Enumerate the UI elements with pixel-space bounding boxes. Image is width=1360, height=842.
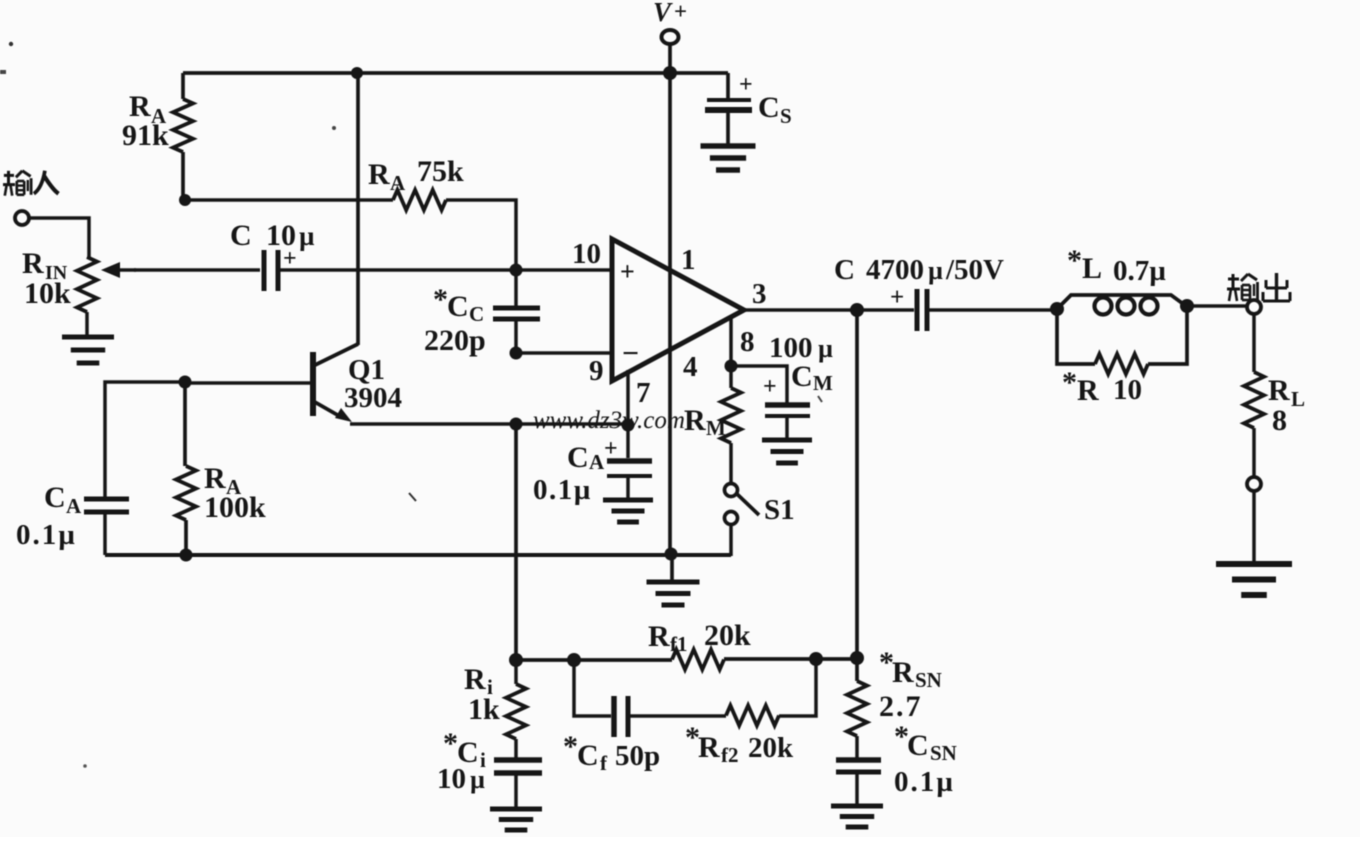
wire pin8 node to CM xyxy=(731,366,787,403)
wire CS to ground xyxy=(726,110,730,144)
svg-text:10: 10 xyxy=(437,763,466,795)
svg-text:9: 9 xyxy=(589,355,604,387)
svg-text:C: C xyxy=(230,219,252,252)
svg-text:+: + xyxy=(604,436,618,462)
ground at CA-right xyxy=(603,500,653,522)
svg-text:0.1µ: 0.1µ xyxy=(894,766,955,798)
node junction emitter / pin7 / CA-right xyxy=(622,419,635,432)
speck tick mid xyxy=(409,493,416,501)
svg-text:A: A xyxy=(66,494,82,518)
svg-text:+: + xyxy=(674,0,687,24)
capacitor C 4700u/50V xyxy=(917,289,927,331)
node junction emitter / CC riser xyxy=(510,418,523,431)
wire V+ vertical through op-amp (pin1/pin4) xyxy=(668,73,672,554)
terminal RL bottom xyxy=(1247,477,1261,491)
ground at RL xyxy=(1216,564,1292,595)
wire RSN to CSN xyxy=(855,736,859,758)
resistor R 10 parallel xyxy=(1057,306,1187,374)
wire Ri to Ci xyxy=(514,739,518,758)
capacitor C 10u xyxy=(264,250,278,291)
svg-text:A: A xyxy=(589,450,605,474)
svg-text:C: C xyxy=(44,481,66,514)
ground at CSN xyxy=(831,806,883,827)
svg-text:µ: µ xyxy=(928,256,943,285)
svg-text:L: L xyxy=(1291,387,1305,411)
svg-text:3904: 3904 xyxy=(344,382,402,414)
node junction Rf2 return xyxy=(809,652,823,666)
svg-text:*: * xyxy=(563,730,578,763)
wire Cf to Rf2 xyxy=(628,714,726,718)
svg-text:R: R xyxy=(698,731,720,764)
svg-text:+: + xyxy=(620,257,635,286)
wire pin 7 drop xyxy=(626,370,630,425)
svg-text:50p: 50p xyxy=(615,740,660,772)
resistor RL 8 xyxy=(1244,372,1264,428)
svg-text:M: M xyxy=(706,416,726,440)
wire CSN to ground xyxy=(855,772,859,805)
wire Cf tap drop xyxy=(574,660,611,716)
svg-text:*: * xyxy=(1062,366,1077,399)
wire C4700 to L/R network xyxy=(927,308,1057,312)
wire CA-right to ground xyxy=(626,476,630,499)
svg-text:−: − xyxy=(622,337,639,370)
wire rail2 left segment xyxy=(185,198,393,202)
svg-text:C: C xyxy=(834,254,855,286)
potentiometer RIN wiper arrow xyxy=(101,262,120,278)
svg-text:0.7µ: 0.7µ xyxy=(1113,255,1166,287)
svg-text:4: 4 xyxy=(683,351,698,383)
wire RA 100k to bottom rail xyxy=(184,520,188,555)
wire CA-left to bottom rail xyxy=(103,512,107,555)
svg-text:L: L xyxy=(1082,252,1102,285)
svg-text:R: R xyxy=(1077,374,1099,407)
resistor RA1 91k xyxy=(173,99,193,152)
wire feedback node to Ri xyxy=(514,660,518,684)
wire signal line pot-arrow to C 10u xyxy=(134,268,260,272)
wire CC riser to feedback node xyxy=(514,424,518,660)
wire base node to Q1 xyxy=(185,381,311,385)
ground at Ci xyxy=(490,809,542,830)
wire lower terminal to ground xyxy=(1252,491,1256,562)
svg-text:+: + xyxy=(283,246,297,272)
node A junction (divider / RA 75k rail) xyxy=(179,194,191,206)
wire rail to main ground xyxy=(670,554,674,581)
resistor Rf2 20k xyxy=(726,706,779,726)
wire input terminal to pot xyxy=(29,218,89,257)
svg-text:20k: 20k xyxy=(748,732,794,764)
node junction feedback / RSN riser xyxy=(850,651,864,665)
label input 输入 xyxy=(3,171,31,196)
capacitor CSN 0.1u xyxy=(836,760,881,772)
node junction L/R left xyxy=(1050,302,1064,316)
svg-text:100k: 100k xyxy=(204,491,266,524)
node junction L/R right xyxy=(1180,299,1194,313)
svg-text:C: C xyxy=(469,302,484,326)
capacitor Cf 50p xyxy=(614,696,628,737)
svg-text:C: C xyxy=(907,729,929,762)
wire C 10u to op-amp +input xyxy=(278,268,612,272)
wire rail2 right segment + drop to +input node xyxy=(446,200,516,270)
svg-text:10: 10 xyxy=(1113,374,1142,406)
resistor RA3 100k xyxy=(176,466,196,520)
resistor RM xyxy=(721,388,741,443)
terminal output xyxy=(1247,300,1261,314)
svg-text:91k: 91k xyxy=(122,119,169,152)
capacitor CA-right 0.1u xyxy=(607,461,652,476)
svg-text:C: C xyxy=(567,441,589,474)
wire Ci to ground xyxy=(514,773,518,808)
svg-text:C: C xyxy=(791,360,813,393)
svg-text:C: C xyxy=(758,91,780,124)
potentiometer RIN 10k body xyxy=(77,257,97,312)
label output 输出 xyxy=(1227,274,1258,301)
svg-text:1k: 1k xyxy=(468,693,500,726)
svg-text:7: 7 xyxy=(636,377,651,409)
node junction pin8 / RM / CM xyxy=(725,360,738,373)
terminal input xyxy=(15,211,29,225)
node junction Cf tap xyxy=(567,653,581,667)
switch S1 xyxy=(725,484,760,525)
svg-text:V: V xyxy=(653,0,673,27)
svg-text:1: 1 xyxy=(681,244,696,276)
svg-text:10k: 10k xyxy=(24,277,71,310)
ground at RIN xyxy=(62,337,114,363)
ground at CM xyxy=(762,440,812,463)
wire pin8 node to RM xyxy=(729,366,733,388)
svg-text:*: * xyxy=(433,283,448,316)
svg-text:+: + xyxy=(890,284,904,311)
wire pin7 node to CA-right xyxy=(626,425,630,458)
svg-text:2.7: 2.7 xyxy=(879,690,923,723)
op-amp U1 triangle xyxy=(612,239,744,381)
resistor RA2 75k xyxy=(393,190,446,210)
svg-text:µ: µ xyxy=(299,221,315,251)
node junction top-rail / collector riser xyxy=(351,67,363,79)
node junction +input / CC xyxy=(510,264,523,277)
wire feedback row left xyxy=(516,658,672,662)
svg-text:R: R xyxy=(892,656,914,689)
svg-text:/50V: /50V xyxy=(945,254,1004,286)
svg-text:µ: µ xyxy=(470,765,485,794)
capacitor CS xyxy=(705,100,752,110)
svg-text:R: R xyxy=(22,247,44,280)
speck top-left xyxy=(9,42,13,46)
speck near CC xyxy=(332,126,336,130)
capacitor CM 100u xyxy=(765,405,810,416)
resistor Rf1 20k xyxy=(672,650,724,670)
svg-text:+: + xyxy=(763,374,777,400)
wire bottom ground rail xyxy=(105,553,731,557)
svg-text:*: * xyxy=(1067,244,1082,277)
ground main xyxy=(647,582,700,605)
svg-text:8: 8 xyxy=(1272,404,1287,437)
svg-text:f2: f2 xyxy=(721,743,739,767)
wire CC to -input node xyxy=(514,319,518,353)
svg-text:C: C xyxy=(447,290,469,323)
wire divider mid segment xyxy=(183,382,187,466)
svg-text:220p: 220p xyxy=(424,324,486,357)
speck near CM xyxy=(818,396,822,402)
inductor L 0.7u xyxy=(1057,295,1186,315)
svg-text:75k: 75k xyxy=(417,155,464,188)
svg-text:A: A xyxy=(390,171,406,195)
svg-text:3: 3 xyxy=(752,278,767,310)
wire -input (pin 9) xyxy=(516,351,612,355)
wire output node riser to RSN xyxy=(855,310,859,681)
node junction rail / RA 100k xyxy=(180,549,193,562)
svg-text:C: C xyxy=(577,739,599,772)
svg-text:R: R xyxy=(1268,374,1290,407)
terminal V+ xyxy=(662,30,679,73)
wire left riser upper (top rail to RA 91k) xyxy=(181,73,185,99)
wire +input node down to CC xyxy=(514,270,518,306)
wire Q1 emitter line xyxy=(350,422,628,426)
svg-text:S1: S1 xyxy=(764,494,795,526)
svg-text:R: R xyxy=(464,663,486,696)
svg-text:20k: 20k xyxy=(704,619,751,652)
svg-text:8: 8 xyxy=(740,326,755,358)
wire base node to CA-left xyxy=(105,382,185,497)
wire RL to lower terminal xyxy=(1252,428,1256,477)
wire op-amp output (pin 3) xyxy=(744,308,857,312)
wire CM to ground xyxy=(785,416,789,439)
wire S1 to bottom rail xyxy=(729,524,733,556)
svg-text:4700: 4700 xyxy=(866,254,924,286)
wire output node to C4700 xyxy=(857,308,914,312)
node junction rail / pin4 / ground xyxy=(665,548,678,561)
svg-text:f1: f1 xyxy=(670,632,688,656)
svg-text:0.1µ: 0.1µ xyxy=(533,474,592,506)
capacitor CA-left 0.1u xyxy=(84,499,129,512)
svg-text:www.dz3w.com: www.dz3w.com xyxy=(533,407,685,434)
ground at CS xyxy=(701,146,756,170)
svg-text:R: R xyxy=(684,404,706,437)
svg-text:f: f xyxy=(600,751,608,775)
svg-text:*: * xyxy=(443,727,458,760)
capacitor Ci 10u xyxy=(494,760,542,773)
wire to output terminal xyxy=(1187,304,1247,308)
svg-text:+: + xyxy=(739,72,753,98)
svg-text:SN: SN xyxy=(915,668,942,692)
svg-text:R: R xyxy=(648,620,670,653)
node junction -input / CC / feedback riser xyxy=(510,347,523,360)
svg-text:R: R xyxy=(368,158,390,191)
resistor Ri 1k xyxy=(506,684,526,739)
wire top rail to CS xyxy=(726,73,730,98)
wire RA 91k to node A xyxy=(181,152,185,200)
transistor Q1 2N3904 xyxy=(313,344,358,422)
capacitor CC 220p xyxy=(493,308,540,319)
node junction output / C4700 / RSN riser xyxy=(850,303,864,317)
svg-text:µ: µ xyxy=(818,334,833,363)
svg-text:SN: SN xyxy=(930,741,957,765)
svg-text:M: M xyxy=(813,371,833,395)
svg-text:0.1µ: 0.1µ xyxy=(16,519,77,551)
node junction base / CA-left / divider xyxy=(179,376,192,389)
svg-text:10: 10 xyxy=(572,238,601,270)
wire Q1 collector riser to top rail xyxy=(356,73,360,345)
wire Rf2 return to feedback row xyxy=(779,659,816,716)
wire RM to S1 xyxy=(729,443,733,483)
wire pot bottom to ground xyxy=(85,312,89,336)
wire feedback row right xyxy=(724,657,857,661)
svg-text:S: S xyxy=(780,104,792,128)
wire pin 8 tap xyxy=(729,317,733,366)
node junction top-rail / V+ drop xyxy=(663,66,677,80)
resistor RSN 2.7 xyxy=(847,681,867,736)
speck bottom-left xyxy=(83,764,87,768)
wire output terminal to RL xyxy=(1252,314,1256,372)
power net V+ top rail xyxy=(183,71,728,75)
node junction feedback left xyxy=(509,653,523,667)
